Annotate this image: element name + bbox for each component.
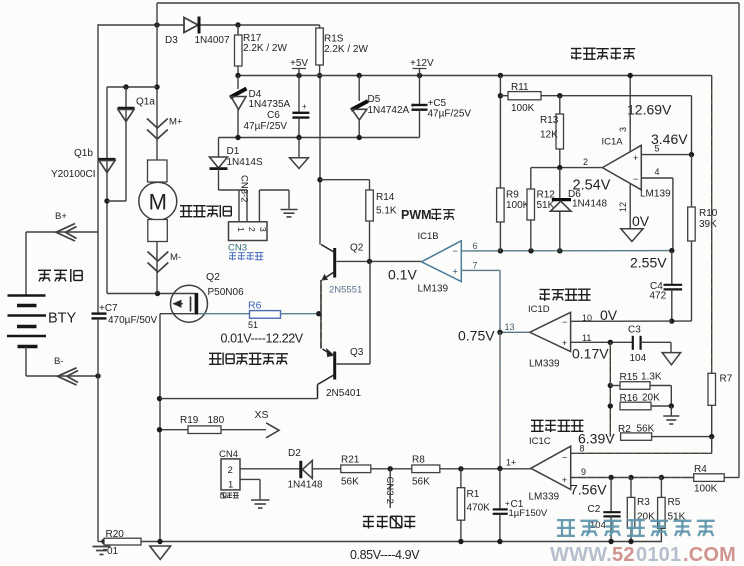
- svg-text:0.85V----4.9V: 0.85V----4.9V: [350, 548, 420, 562]
- svg-text:47µF/25V: 47µF/25V: [428, 109, 472, 120]
- node R1 top: [458, 466, 463, 471]
- value R14 5.1K: [376, 206, 397, 217]
- wire CN4 pin2 row: [240, 468, 300, 470]
- svg-text:−: −: [633, 174, 638, 184]
- wire base column to Q3: [337, 261, 371, 364]
- wire shunt row y398.6: [160, 398, 318, 400]
- label R12: [537, 190, 556, 201]
- diode D6: [551, 168, 572, 251]
- zener D5: [351, 76, 368, 138]
- pin 13: [505, 322, 515, 332]
- label 调速给定: [363, 516, 415, 528]
- transistor Q2 MOSFET P50N06: [171, 285, 208, 322]
- node R3 bottom: [628, 539, 633, 544]
- resistor R21: [341, 465, 412, 473]
- diode D1: [210, 138, 228, 191]
- diode Q1a: [118, 108, 135, 121]
- svg-text:R10: R10: [699, 208, 718, 219]
- ground hatch CN4: [251, 500, 270, 508]
- label D1: [227, 146, 240, 157]
- value R16 20K: [642, 393, 660, 404]
- node gate drive junction: [316, 311, 321, 316]
- value 2N5551: [329, 285, 362, 296]
- connector B+ chevrons: [56, 224, 77, 242]
- value C4 472: [650, 291, 667, 302]
- capacitor C7: [92, 314, 107, 376]
- wire x98 to C7: [97, 232, 99, 313]
- svg-text:2N5401: 2N5401: [326, 388, 361, 399]
- wire base row y261.4: [337, 260, 422, 262]
- watermark 家电维修资料网: [557, 520, 715, 536]
- svg-text:−: −: [453, 246, 458, 256]
- value C1 1uF150V: [509, 508, 548, 519]
- svg-text:0.75V: 0.75V: [458, 328, 495, 344]
- svg-text:2: 2: [583, 157, 588, 167]
- wire x610 column: [609, 342, 611, 436]
- label 3.46V: [651, 131, 688, 147]
- label C3: [628, 325, 641, 336]
- node D5 gnd: [357, 135, 362, 140]
- svg-text:2.55V: 2.55V: [630, 255, 667, 271]
- resistor R4: [694, 474, 739, 482]
- pin 10: [582, 313, 592, 323]
- pin 7: [473, 261, 478, 271]
- label R13: [540, 115, 559, 126]
- svg-text:01: 01: [107, 546, 119, 557]
- ground triangle C3: [662, 353, 680, 365]
- op-amp IC1B: [422, 241, 462, 282]
- label 0V IC1A: [632, 213, 650, 229]
- node R3 top: [628, 475, 633, 480]
- resistor R19: [160, 426, 266, 434]
- wire motor to M- arrows: [156, 242, 158, 294]
- node D3 junction x157: [154, 22, 159, 27]
- svg-text:5.1K: 5.1K: [376, 206, 397, 217]
- node R14 tap: [317, 177, 322, 182]
- svg-text:R7: R7: [720, 374, 733, 385]
- pin 1+: [506, 458, 516, 468]
- label D4: [249, 89, 262, 100]
- svg-text:2N5551: 2N5551: [329, 285, 362, 296]
- value R3 20K: [637, 512, 655, 523]
- label R1S: [324, 34, 344, 45]
- label CN3: [228, 243, 247, 254]
- svg-text:3: 3: [618, 127, 628, 132]
- wire speckle teal 6-row: [462, 250, 670, 252]
- node B+ rail junction: [0, 0, 1, 1]
- node 0V junction: [669, 318, 674, 323]
- motor brush block bottom: [148, 220, 168, 242]
- label LM139 IC1A: [640, 189, 671, 200]
- node rail R9: [498, 73, 503, 78]
- value 2N5401: [326, 388, 361, 399]
- label CN3-2 rotated: [239, 175, 250, 202]
- svg-text:R2: R2: [618, 424, 631, 435]
- svg-text:1.3K: 1.3K: [641, 372, 662, 383]
- resistor R9: [497, 188, 505, 251]
- svg-text:IC1B: IC1B: [418, 231, 439, 242]
- svg-text:472: 472: [650, 291, 667, 302]
- svg-text:7.56V: 7.56V: [570, 482, 607, 498]
- value D1 1N414S: [227, 157, 263, 168]
- svg-text:M+: M+: [169, 117, 183, 128]
- resistor R15: [610, 382, 671, 406]
- svg-text:1N4742A: 1N4742A: [368, 105, 410, 116]
- svg-text:D5: D5: [368, 94, 381, 105]
- node source/shunt junction: [157, 396, 162, 401]
- svg-text:C2: C2: [588, 504, 601, 515]
- label R7: [720, 374, 733, 385]
- label D6: [568, 189, 581, 200]
- wire y87 freewheel tie: [107, 86, 157, 88]
- wire speckle red emitters: [320, 282, 322, 346]
- label R3: [637, 497, 650, 508]
- wire IC1D output: [500, 331, 530, 333]
- svg-text:R19: R19: [180, 415, 199, 426]
- svg-text:+C7: +C7: [99, 303, 118, 314]
- label D2: [288, 448, 301, 459]
- resistor R20 shunt: [104, 538, 141, 545]
- label 过流保护: [540, 289, 591, 301]
- svg-text:3.46V: 3.46V: [651, 131, 688, 147]
- zener D4: [230, 76, 247, 138]
- wire 8 row: [571, 452, 712, 454]
- svg-text:1+: 1+: [506, 458, 516, 468]
- resistor R17: [235, 25, 243, 76]
- svg-text:LM339: LM339: [529, 492, 560, 503]
- svg-text:B-: B-: [54, 356, 64, 367]
- label M+: [169, 117, 183, 128]
- node Q1a top: [123, 84, 128, 89]
- wire CN3 pin3 to gnd: [259, 190, 289, 222]
- svg-text:0101: 0101: [636, 544, 681, 566]
- wire source column x160: [159, 314, 161, 542]
- node R9 bottom: [498, 248, 503, 253]
- node Q1 anode junction: [104, 198, 109, 203]
- value R21 56K: [341, 477, 359, 488]
- svg-text:1µF150V: 1µF150V: [509, 508, 548, 519]
- svg-text:12.69V: 12.69V: [627, 102, 672, 118]
- label 锯齿波产生: [571, 48, 635, 60]
- node C5 rail: [417, 73, 422, 78]
- wire 10 row 0V: [571, 320, 672, 322]
- svg-text:Q3: Q3: [350, 347, 364, 358]
- node pin5/R10: [689, 152, 694, 157]
- wire 2 row: [531, 167, 603, 169]
- label 0.17V: [572, 346, 609, 362]
- wire x320 collector column: [319, 76, 321, 245]
- resistor R1S: [316, 25, 324, 76]
- wire R14 branch: [320, 180, 370, 190]
- label Q2 mosfet: [206, 271, 220, 283]
- svg-text:6: 6: [473, 241, 478, 251]
- svg-text:+: +: [562, 338, 567, 348]
- wire x500 wired-or column: [499, 332, 501, 468]
- svg-text:56K: 56K: [412, 477, 430, 488]
- svg-text:D3: D3: [165, 35, 178, 46]
- label M-: [170, 252, 181, 263]
- node R1S rail junction: [317, 73, 322, 78]
- label Q1a: [136, 97, 155, 108]
- svg-text:1N4735A: 1N4735A: [249, 99, 291, 110]
- arrow M+: [147, 119, 168, 140]
- wire hysteresis corner: [711, 437, 713, 454]
- node C6 gnd: [296, 135, 301, 140]
- label 0V IC1D: [600, 307, 618, 323]
- wire Q1a to Q1b tie: [107, 200, 126, 202]
- pin 2: [583, 157, 588, 167]
- svg-text:M-: M-: [170, 252, 181, 263]
- node D6 top: [557, 165, 562, 170]
- svg-text:+: +: [302, 102, 307, 111]
- wire ground rail y137.5: [219, 137, 420, 139]
- node B- junction: [95, 373, 100, 378]
- node D4 gnd: [235, 135, 240, 140]
- svg-text:R14: R14: [376, 192, 395, 203]
- wire y25 from B+ node to D3: [98, 24, 185, 26]
- svg-text:R21: R21: [341, 455, 360, 466]
- op-amp IC1C: [531, 446, 571, 489]
- wire 4 row: [641, 178, 673, 251]
- value R20 .01: [103, 546, 119, 557]
- wire D1 to CN3 pins: [219, 190, 248, 222]
- wire B+ row y232: [26, 231, 98, 233]
- motor M body: [139, 182, 177, 220]
- svg-text:56K: 56K: [637, 424, 655, 435]
- svg-text:IC1A: IC1A: [602, 137, 624, 148]
- label Q1b: [74, 148, 93, 159]
- svg-text:0V: 0V: [632, 213, 650, 229]
- value R17 2.2K/2W: [243, 43, 287, 54]
- value D5 1N4742A: [368, 105, 410, 116]
- node R19 junction: [157, 427, 162, 432]
- wire battery column top: [25, 232, 27, 296]
- node R1 bottom: [458, 539, 463, 544]
- label IC1B: [418, 231, 439, 242]
- svg-text:100K: 100K: [694, 484, 718, 495]
- label 1N4007: [195, 35, 230, 46]
- svg-text:Q1b: Q1b: [74, 148, 93, 159]
- svg-text:+C5: +C5: [428, 98, 447, 109]
- svg-text:CN3-2: CN3-2: [239, 175, 250, 202]
- node R11 left: [498, 93, 503, 98]
- label D3: [165, 35, 178, 46]
- svg-text:12: 12: [618, 202, 628, 212]
- value R2 56K: [637, 424, 655, 435]
- transistor Q3 2N5401: [318, 314, 335, 399]
- label Q2 bjt: [350, 243, 364, 254]
- resistor R11: [500, 92, 691, 100]
- svg-text:+: +: [633, 153, 638, 163]
- ground triangle mid rail: [290, 138, 309, 169]
- node sawtooth cap top: [669, 248, 674, 253]
- svg-text:CN4: CN4: [219, 449, 238, 460]
- svg-text:−: −: [562, 453, 567, 463]
- value R15 1.3K: [641, 372, 662, 383]
- svg-text:PWM: PWM: [401, 208, 432, 222]
- resistor R3: [627, 478, 635, 542]
- wire pin5 column: [691, 96, 693, 155]
- svg-text:52: 52: [612, 544, 635, 566]
- svg-text:39K: 39K: [699, 219, 717, 230]
- wire speckle red 9-row: [575, 477, 690, 479]
- node drain/motor junction: [155, 291, 160, 296]
- svg-text:R1S: R1S: [324, 34, 344, 45]
- pin 6: [473, 241, 478, 251]
- svg-text:C3: C3: [628, 325, 641, 336]
- label 2.55V: [630, 255, 667, 271]
- svg-text:R15: R15: [620, 372, 639, 383]
- label 12.69V: [627, 102, 672, 118]
- resistor R5: [658, 478, 666, 542]
- svg-text:11: 11: [582, 333, 591, 343]
- svg-text:R6: R6: [248, 300, 262, 312]
- label R21: [341, 455, 360, 466]
- wire Q1a column x126: [125, 87, 127, 201]
- node D5 rail: [357, 73, 362, 78]
- label C4: [650, 281, 663, 292]
- pin 12 gnd: [618, 184, 630, 229]
- motor brush block top: [148, 160, 168, 182]
- svg-text:1: 1: [228, 480, 233, 491]
- arrow M-: [148, 252, 169, 273]
- wire Q1b column x107: [106, 87, 108, 294]
- svg-text:P50N06: P50N06: [208, 287, 245, 298]
- connector CN4: [221, 459, 240, 491]
- wire source row: [160, 313, 195, 315]
- label R8: [412, 455, 425, 466]
- label R15: [620, 372, 639, 383]
- svg-text:1N4007: 1N4007: [195, 35, 230, 46]
- op-amp IC1D: [530, 312, 571, 351]
- connector CN3: [229, 222, 269, 241]
- label D5: [368, 94, 381, 105]
- svg-text:Q1a: Q1a: [136, 97, 155, 108]
- svg-text:180: 180: [208, 415, 225, 426]
- resistor R13: [556, 96, 564, 168]
- node R16 right: [669, 403, 674, 408]
- wire motor column x157 top: [156, 3, 158, 160]
- watermark WWW.520101.COM: [550, 544, 736, 566]
- svg-text:9: 9: [581, 467, 586, 477]
- wire right B+ rail: [738, 3, 740, 478]
- label CN4: [219, 449, 238, 460]
- label BTY: [48, 311, 77, 327]
- label 有刷电机: [180, 205, 231, 217]
- svg-text:0.1V: 0.1V: [388, 267, 417, 283]
- value R10 39K: [699, 219, 717, 230]
- node C1 bottom: [497, 539, 502, 544]
- svg-text:2.2K / 2W: 2.2K / 2W: [243, 43, 287, 54]
- label R17: [243, 33, 262, 44]
- value C6 47uF/25V: [244, 121, 288, 132]
- label R1: [467, 489, 480, 500]
- node R5 top: [659, 475, 664, 480]
- svg-text:R5: R5: [668, 497, 681, 508]
- wire 6 sawtooth to IC1B: [461, 250, 672, 252]
- label C7: [99, 303, 118, 314]
- pin 3 power: [618, 76, 630, 153]
- resistor R1: [457, 469, 465, 542]
- capacitor C1: [493, 469, 510, 542]
- label LM339 IC1D: [529, 359, 560, 370]
- svg-text:4: 4: [655, 167, 660, 177]
- svg-text:470K: 470K: [467, 503, 491, 514]
- value D2 1N4148: [288, 480, 323, 491]
- svg-text:1N4148: 1N4148: [288, 480, 323, 491]
- label R14: [376, 192, 395, 203]
- label PWM调制: [401, 208, 455, 222]
- wire 9 row: [571, 477, 694, 479]
- svg-text:Q2: Q2: [350, 243, 364, 254]
- svg-text:+: +: [562, 475, 567, 485]
- svg-text:−: −: [562, 317, 567, 327]
- label LM339 IC1C: [529, 492, 560, 503]
- svg-text:100K: 100K: [511, 103, 535, 114]
- svg-text:2.2K / 2W: 2.2K / 2W: [324, 44, 368, 55]
- label 功率放大电路: [209, 353, 288, 366]
- node R20 left: [101, 539, 106, 544]
- node R17 top: [235, 22, 240, 27]
- wire CN4 pin1 gnd: [240, 479, 260, 499]
- wire gate row to R6: [198, 313, 250, 315]
- wire CN3-2 stub: [389, 469, 391, 508]
- wire 7 from IC1B plus: [461, 270, 500, 332]
- battery BTY plates: [7, 296, 46, 347]
- svg-text:104: 104: [630, 353, 647, 364]
- connector B- chevrons: [58, 368, 79, 385]
- svg-text:CN3: CN3: [228, 243, 247, 254]
- node pin11 sense: [608, 340, 613, 345]
- svg-text:+5V: +5V: [290, 58, 308, 69]
- svg-text:R4: R4: [694, 464, 707, 475]
- pin 5: [655, 144, 660, 154]
- capacitor C6: [292, 76, 309, 138]
- node base/R14 junction: [367, 259, 372, 264]
- value C5 47uF/25V: [428, 109, 472, 120]
- value D6 1N4148: [572, 199, 607, 210]
- wire R9 column: [499, 76, 501, 189]
- svg-text:2: 2: [247, 227, 257, 232]
- ground hatch battery minus: [93, 547, 111, 555]
- label R4: [694, 464, 707, 475]
- svg-text:C6: C6: [267, 110, 280, 121]
- svg-text:LM339: LM339: [529, 359, 560, 370]
- pin 8: [580, 444, 585, 454]
- capacitor C5: [411, 76, 428, 138]
- wire x98 lower: [97, 376, 99, 542]
- node source rail bottom: [157, 539, 162, 544]
- capacitor C4: [664, 251, 683, 322]
- pin 11: [582, 333, 591, 343]
- svg-text:1N4148: 1N4148: [572, 199, 607, 210]
- value C2 104: [590, 520, 606, 531]
- value R6 51: [248, 320, 258, 330]
- resistor R8: [412, 465, 531, 473]
- svg-text:3: 3: [258, 227, 268, 232]
- value R1 470K: [467, 503, 491, 514]
- svg-text:XS: XS: [255, 409, 269, 421]
- svg-text:LM139: LM139: [418, 284, 449, 295]
- svg-text:51: 51: [248, 320, 258, 330]
- label B+: [55, 211, 67, 222]
- resistor R2: [621, 433, 712, 440]
- wire drain row y293.5: [107, 293, 196, 295]
- label CN3-2 rotated bottom: [384, 477, 395, 504]
- wire speckle red x610: [609, 345, 611, 434]
- label IC1C: [529, 436, 551, 447]
- label R9: [506, 190, 519, 201]
